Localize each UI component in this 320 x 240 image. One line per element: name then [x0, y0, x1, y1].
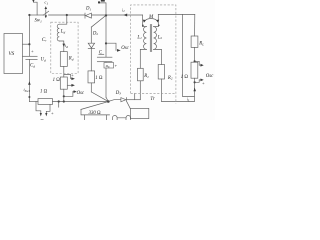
svg-text:D1: D1 [85, 7, 91, 12]
svg-text:Osc: Osc [121, 46, 129, 51]
svg-text:+: + [114, 63, 117, 68]
svg-text:Sw1: Sw1 [35, 19, 43, 24]
svg-text:+: + [31, 49, 34, 54]
svg-text:Cr: Cr [42, 37, 47, 43]
svg-text:c1: c1 [45, 0, 49, 5]
svg-text:R1: R1 [143, 74, 149, 79]
svg-text:VS: VS [9, 51, 15, 57]
svg-text:Osc: Osc [206, 74, 214, 79]
svg-text:Cd: Cd [30, 64, 35, 69]
svg-text:iL: iL [187, 97, 190, 103]
svg-text:L2: L2 [157, 35, 163, 40]
svg-text:+: + [71, 72, 74, 77]
svg-text:Ud: Ud [41, 58, 46, 63]
svg-text:M: M [148, 15, 154, 20]
svg-text:RL: RL [198, 42, 204, 47]
svg-text:uC: uC [106, 63, 111, 69]
svg-text:Rd: Rd [68, 57, 74, 62]
svg-text:iSw1: iSw1 [24, 87, 31, 93]
svg-text:+: + [202, 81, 205, 86]
svg-text:Ld: Ld [60, 30, 66, 35]
svg-text:1 Ω: 1 Ω [95, 76, 103, 81]
svg-text:i1: i1 [122, 7, 125, 13]
svg-text:D3: D3 [115, 91, 121, 96]
svg-text:Osc: Osc [77, 91, 85, 96]
svg-text:id: id [65, 43, 68, 49]
svg-text:D2: D2 [92, 31, 98, 36]
svg-text:1 Ω: 1 Ω [53, 78, 61, 83]
svg-text:R2: R2 [167, 76, 173, 81]
svg-text:+: + [51, 111, 54, 116]
svg-text:1 Ω: 1 Ω [40, 90, 48, 95]
svg-text:L1: L1 [136, 35, 142, 40]
svg-text:330 Ω: 330 Ω [89, 111, 101, 116]
svg-text:Tr: Tr [150, 97, 154, 102]
svg-text:1 Ω: 1 Ω [181, 75, 189, 80]
